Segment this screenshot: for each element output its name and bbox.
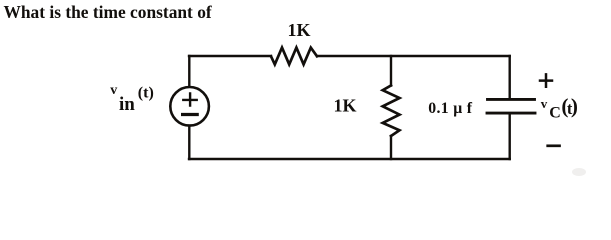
minus label of vC: [548, 144, 560, 147]
wire right branch top: [509, 56, 511, 98]
svg-text:(t): (t): [138, 85, 154, 102]
svg-text:): ): [571, 94, 578, 118]
wire middle branch top: [390, 56, 392, 86]
svg-text:in: in: [119, 94, 135, 115]
wire left vertical (source top lead): [188, 56, 190, 87]
svg-text:1K: 1K: [288, 20, 311, 40]
wire below source: [188, 126, 190, 159]
voltage source VS circle: [170, 87, 209, 126]
wire right branch bottom: [509, 115, 511, 159]
resistor R1 1K (horizontal): [271, 48, 317, 65]
wire top-right segment: [317, 55, 510, 57]
capacitor C1 bottom plate: [487, 112, 535, 115]
svg-text:What is the time constant of: What is the time constant of: [4, 2, 212, 22]
svg-text:1K: 1K: [334, 96, 357, 116]
wire middle branch bottom: [390, 136, 392, 159]
svg-text:C: C: [549, 105, 561, 122]
wire top-left segment: [189, 55, 271, 57]
minus sign inside source: [183, 113, 198, 116]
svg-text:v: v: [541, 96, 548, 111]
plus label of vC: [540, 74, 552, 86]
wire bottom: [189, 158, 510, 160]
svg-text:v: v: [110, 83, 117, 98]
plus sign inside source: [183, 94, 196, 106]
resistor R2 1K (vertical): [383, 86, 400, 137]
faint scan smudge bottom right: [572, 168, 586, 176]
svg-text:0.1 μ f: 0.1 μ f: [428, 100, 472, 117]
capacitor C1 top plate: [488, 98, 535, 101]
